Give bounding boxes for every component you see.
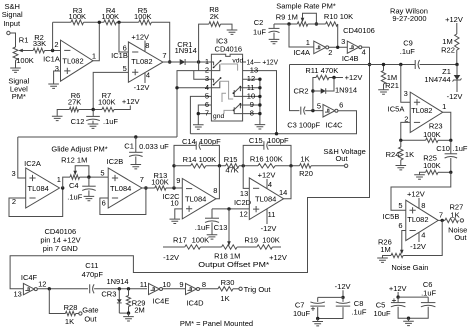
svg-text:R16: R16 xyxy=(250,154,264,163)
wire sample pulse routing xyxy=(10,47,369,289)
svg-text:5: 5 xyxy=(100,168,104,177)
capacitor C9 xyxy=(414,60,416,69)
IC3 CD4016 box xyxy=(211,54,242,121)
svg-text:2K: 2K xyxy=(210,12,219,21)
capacitor C1 xyxy=(135,137,137,152)
node pin7 xyxy=(197,112,200,115)
svg-text:CD4016: CD4016 xyxy=(215,44,243,53)
pin 3 wire xyxy=(194,71,212,80)
svg-text:7: 7 xyxy=(439,210,443,219)
svg-text:.1uF: .1uF xyxy=(103,117,118,126)
wire R25 right xyxy=(438,171,451,173)
IC2B feedback loop xyxy=(100,188,146,215)
svg-text:1: 1 xyxy=(92,51,96,60)
svg-text:IC2A: IC2A xyxy=(24,159,41,168)
pin 4 wire xyxy=(177,87,211,89)
ground (C13) xyxy=(211,222,213,234)
wire IC4D out xyxy=(200,288,218,290)
wire C2 to R9 xyxy=(274,23,297,25)
svg-text:4: 4 xyxy=(146,71,150,80)
node sample/osc xyxy=(368,63,371,66)
resistor R23 xyxy=(426,138,438,142)
ground (R25) xyxy=(420,172,426,174)
IC2A feedback loop xyxy=(9,188,63,217)
svg-text:-12V: -12V xyxy=(410,242,426,251)
node pin12/wiper xyxy=(227,207,230,210)
pin 12 wire xyxy=(243,78,260,80)
svg-text:IC4B: IC4B xyxy=(342,54,359,63)
svg-text:TL082: TL082 xyxy=(407,215,428,224)
capacitor C2 xyxy=(273,24,275,28)
capacitor C10 xyxy=(450,140,452,153)
svg-text:Signal: Signal xyxy=(2,10,23,19)
wire control bus top xyxy=(290,64,416,66)
svg-text:13: 13 xyxy=(14,290,22,299)
node Z1/R22 xyxy=(455,63,458,66)
node R23/C10 xyxy=(449,139,452,142)
svg-text:PM*: PM* xyxy=(12,92,26,101)
svg-text:100K: 100K xyxy=(151,177,169,186)
wire pin3 IC5A xyxy=(401,65,410,103)
pin 7 wire xyxy=(198,114,211,125)
op-amp IC5A xyxy=(410,92,443,132)
svg-text:C14: C14 xyxy=(182,137,196,146)
wire R13 to pin9 xyxy=(166,187,182,189)
svg-text:1K: 1K xyxy=(300,154,309,163)
wire IC4A input xyxy=(289,24,314,47)
resistor R11 xyxy=(316,75,329,79)
svg-text:.1uF: .1uF xyxy=(400,47,415,56)
svg-text:0.033 uF: 0.033 uF xyxy=(139,142,169,151)
svg-text:8: 8 xyxy=(250,109,254,118)
svg-text:Input: Input xyxy=(3,19,21,28)
wire C14 loop left xyxy=(174,145,196,188)
node IC5B output xyxy=(441,219,444,222)
svg-text:100K: 100K xyxy=(102,12,120,21)
R18 wiper xyxy=(228,209,230,242)
pin 8 stub xyxy=(144,41,146,52)
ground (IC3 bus) xyxy=(255,125,266,129)
right bus xyxy=(259,79,261,124)
svg-text:3: 3 xyxy=(341,37,345,46)
svg-text:14: 14 xyxy=(279,188,287,197)
node IC2B output xyxy=(144,186,147,189)
resistor R19 xyxy=(257,245,273,249)
svg-text:IC4F: IC4F xyxy=(21,273,38,282)
svg-text:4: 4 xyxy=(362,47,366,56)
node R25/C10 xyxy=(449,171,452,174)
svg-text:+12V: +12V xyxy=(389,284,407,293)
svg-text:3: 3 xyxy=(55,64,59,73)
svg-text:2: 2 xyxy=(54,40,58,49)
svg-text:11: 11 xyxy=(268,210,276,219)
svg-text:27K: 27K xyxy=(68,97,81,106)
resistor R17 xyxy=(185,245,201,249)
wire +12V stem xyxy=(397,292,399,297)
wire C5/C6 top bus xyxy=(398,296,428,298)
svg-text:-12V: -12V xyxy=(261,224,277,233)
ground (R8) xyxy=(227,30,238,34)
wire IC1B output xyxy=(163,61,180,63)
wire R28 riser xyxy=(49,289,65,314)
wire pin2 riser xyxy=(52,22,54,50)
capacitor C15 xyxy=(263,141,265,150)
svg-text:C13: C13 xyxy=(214,223,228,232)
svg-text:C10: C10 xyxy=(436,144,450,153)
node R23/R24 xyxy=(399,139,402,142)
ground (C7/C8) xyxy=(317,319,319,322)
ground (C12) xyxy=(92,121,94,124)
capacitor C7 xyxy=(317,297,319,302)
resistor R25 xyxy=(426,170,438,174)
inverter IC4B xyxy=(347,41,359,53)
svg-text:100K: 100K xyxy=(262,236,280,245)
wire rail to IC2A xyxy=(18,137,26,178)
svg-text:IC1A: IC1A xyxy=(43,55,60,64)
node R21 top xyxy=(382,63,385,66)
svg-text:TL082: TL082 xyxy=(411,106,432,115)
svg-text:1K: 1K xyxy=(220,294,229,303)
node R15/R16 xyxy=(242,164,245,167)
wire C9 right xyxy=(420,64,457,66)
node gate/R28 xyxy=(48,287,51,290)
svg-text:100pF: 100pF xyxy=(199,137,221,146)
svg-text:100K: 100K xyxy=(134,12,152,21)
R12 wiper loop xyxy=(73,171,77,176)
svg-text:100K: 100K xyxy=(192,236,210,245)
svg-text:-12V: -12V xyxy=(447,92,463,101)
ground (R24) xyxy=(396,166,407,170)
svg-text:IC5B: IC5B xyxy=(383,212,400,221)
svg-text:IC4A: IC4A xyxy=(293,48,310,57)
terminal Trig Out xyxy=(239,287,242,290)
ground (C4) xyxy=(88,190,90,196)
node C8 top xyxy=(341,296,344,299)
svg-text:4: 4 xyxy=(421,231,425,240)
svg-text:47K: 47K xyxy=(225,165,238,174)
wire R23 right xyxy=(438,139,451,141)
svg-text:11: 11 xyxy=(140,280,148,289)
op-amp IC1B xyxy=(128,42,163,82)
svg-text:IC5A: IC5A xyxy=(388,105,405,114)
R9 wiper loop xyxy=(301,18,305,23)
op-amp IC1A xyxy=(61,40,94,81)
svg-text:CD40106: CD40106 xyxy=(343,26,375,35)
wire C7/C8 top bus xyxy=(318,296,343,298)
ground (IC3 pin7) xyxy=(193,125,204,129)
svg-text:C2: C2 xyxy=(254,18,264,27)
svg-text:R11 470K: R11 470K xyxy=(305,66,338,75)
svg-text:.1uF: .1uF xyxy=(67,192,82,201)
svg-text:Out: Out xyxy=(454,233,467,242)
svg-text:10uF: 10uF xyxy=(293,309,311,318)
op-amp IC2B xyxy=(108,168,142,208)
wire R26 to output xyxy=(403,220,442,255)
svg-text:5: 5 xyxy=(123,64,127,73)
svg-text:1uF: 1uF xyxy=(253,28,266,37)
wire IC5A out riser xyxy=(443,112,451,140)
wire IC4C output loop xyxy=(190,111,356,134)
wire sample bus rail xyxy=(18,136,177,138)
svg-text:33K: 33K xyxy=(33,39,46,48)
wire R19 to +12V xyxy=(272,246,281,248)
wire R18-R19 xyxy=(237,246,257,248)
pin 1-2 link xyxy=(198,62,200,71)
wire pin6 wiper xyxy=(402,231,406,252)
ground (R26) xyxy=(383,256,392,258)
svg-text:C4: C4 xyxy=(69,181,79,190)
svg-text:.1uF: .1uF xyxy=(351,307,366,316)
switch 2 (pins 3/4) xyxy=(211,79,213,82)
terminal Gate Out xyxy=(79,312,82,315)
wire R17-R18 xyxy=(200,246,221,248)
svg-text:2M: 2M xyxy=(134,305,144,314)
capacitor C6 xyxy=(427,297,429,302)
svg-text:+12V: +12V xyxy=(445,15,463,24)
svg-text:100K: 100K xyxy=(265,154,283,163)
op-amp IC2A xyxy=(26,168,60,208)
wire C14 loop right xyxy=(201,145,220,165)
capacitor C11 xyxy=(89,284,91,293)
resistor R22 xyxy=(456,23,458,34)
wire R2 to IC1A xyxy=(45,50,61,52)
diode CR3 xyxy=(118,289,120,299)
svg-text:3: 3 xyxy=(404,89,408,98)
resistor R4 xyxy=(104,20,117,25)
wire IC5B out xyxy=(438,219,445,221)
svg-text:IC1B: IC1B xyxy=(111,51,128,60)
switch 4 (pins 9/8) xyxy=(240,105,242,108)
inverter IC4A xyxy=(314,41,326,54)
svg-text:1N914: 1N914 xyxy=(175,46,197,55)
resistor R30 xyxy=(218,287,233,291)
wire pin5 IC1B xyxy=(93,72,128,109)
node CR2 xyxy=(311,89,314,92)
node R16/R20 xyxy=(289,164,292,167)
wire C3 left drop xyxy=(290,65,300,111)
svg-text:-12V: -12V xyxy=(335,282,351,291)
svg-text:C1: C1 xyxy=(124,142,134,151)
ground (IC1A pin3) xyxy=(48,84,59,88)
capacitor C3 xyxy=(300,107,302,115)
resistor R6 xyxy=(69,107,78,111)
node R11/diode xyxy=(332,76,335,79)
wire pin10 ground xyxy=(175,209,183,219)
resistor R16 xyxy=(258,164,275,168)
svg-text:100K: 100K xyxy=(423,161,441,170)
diode CR1 xyxy=(180,59,185,65)
svg-text:vdd: vdd xyxy=(232,57,243,64)
node R12/C4 xyxy=(87,175,90,178)
wire IC4B output xyxy=(362,46,370,48)
node pin4/pin2 riser xyxy=(175,86,178,89)
svg-text:C3: C3 xyxy=(287,120,297,129)
wire pin6 riser xyxy=(119,22,128,52)
svg-text:9: 9 xyxy=(179,280,183,289)
wire IC2B out xyxy=(142,187,155,189)
svg-text:8: 8 xyxy=(421,201,425,210)
pin 8 wire xyxy=(243,113,260,115)
wire R28 to gate xyxy=(76,313,79,315)
svg-text:Trig Out: Trig Out xyxy=(244,285,272,294)
wire R4-R5 xyxy=(116,21,138,23)
resistor R27 xyxy=(445,218,459,222)
svg-text:TL082: TL082 xyxy=(62,57,83,66)
wire C15 loop right xyxy=(268,145,291,165)
svg-text:R9 1M: R9 1M xyxy=(276,13,298,22)
wire IC4E-IC4D xyxy=(163,288,186,290)
wire pin13 xyxy=(243,166,249,189)
potentiometer R12 xyxy=(70,175,80,179)
resistor R13 xyxy=(155,186,166,190)
node IC4A input xyxy=(287,22,290,25)
resistor R10 xyxy=(326,22,338,26)
svg-text:IC2B: IC2B xyxy=(107,157,124,166)
ground (C1) xyxy=(135,157,137,165)
svg-text:+: + xyxy=(392,295,397,305)
svg-text:4: 4 xyxy=(268,180,272,189)
wiper arrow R1 xyxy=(18,49,23,53)
wire CR3/R29 bottom xyxy=(119,312,128,314)
svg-text:7: 7 xyxy=(162,51,166,60)
svg-text:1: 1 xyxy=(57,175,61,184)
capacitor C8 xyxy=(342,297,344,302)
svg-text:-12V: -12V xyxy=(163,253,179,262)
resistor R5 xyxy=(139,20,152,25)
svg-text:TL084: TL084 xyxy=(185,195,206,204)
svg-text:C15: C15 xyxy=(249,136,263,145)
svg-text:1K: 1K xyxy=(65,317,74,326)
svg-text:C12: C12 xyxy=(71,117,85,126)
wire noise to IC5B xyxy=(391,172,451,210)
svg-text:1N914: 1N914 xyxy=(106,277,128,286)
pin 4 stub (IC2D) xyxy=(266,179,268,189)
node pin9 xyxy=(172,186,175,189)
node R4/R5/pin6 xyxy=(117,21,120,24)
pin 4 stub (IC5B) xyxy=(418,232,420,242)
svg-text:R17: R17 xyxy=(173,236,187,245)
pin 14 wire xyxy=(243,61,246,63)
wire C10 bottom xyxy=(450,158,452,172)
svg-text:IC4C: IC4C xyxy=(325,120,343,129)
node R14 left xyxy=(172,164,175,167)
wire R20 to out xyxy=(311,165,344,167)
svg-text:8: 8 xyxy=(202,280,206,289)
node R10/gate wire xyxy=(336,46,339,49)
diode 1N914 (CR2 cell) xyxy=(313,90,321,92)
zener Z1 xyxy=(456,65,458,76)
wire C5/C6 bottom bus xyxy=(398,307,428,318)
svg-text:R10 10K: R10 10K xyxy=(324,12,353,21)
resistor R14 xyxy=(191,164,206,168)
wire IC4F out xyxy=(37,288,88,290)
wire C15 loop left xyxy=(243,145,264,165)
node pin1 bus xyxy=(197,60,200,63)
svg-text:gnd: gnd xyxy=(213,113,225,120)
svg-text:470pF: 470pF xyxy=(82,270,104,279)
potentiometer R18 xyxy=(222,245,238,249)
svg-text:CR2: CR2 xyxy=(293,87,308,96)
svg-text:7: 7 xyxy=(140,175,144,184)
pin 6 wire xyxy=(198,105,211,114)
svg-text:2: 2 xyxy=(328,48,332,57)
svg-text:10: 10 xyxy=(170,199,178,208)
ground (CR3/R29) xyxy=(128,313,130,316)
wire R23 left xyxy=(401,139,426,141)
node C5/C6 ground xyxy=(407,317,410,320)
wire C7/C8 bottom bus xyxy=(318,307,343,318)
svg-text:R20: R20 xyxy=(299,169,313,178)
wire CR1 to pin1 xyxy=(185,61,212,63)
wire IC2D out riser xyxy=(284,166,291,199)
svg-text:9: 9 xyxy=(176,176,180,185)
switch 3 (pins 11/10) xyxy=(240,88,242,91)
svg-text:10: 10 xyxy=(162,280,170,289)
wire R8 to ground xyxy=(221,24,233,30)
resistor R15 xyxy=(226,164,239,168)
inverter IC4F xyxy=(23,283,34,294)
svg-text:R24: R24 xyxy=(386,150,400,159)
svg-text:TL084: TL084 xyxy=(28,184,49,193)
potentiometer R9 xyxy=(297,22,308,26)
node pin2 IC1A xyxy=(51,49,54,52)
resistor R8 xyxy=(209,22,221,27)
pin 10 wire xyxy=(243,95,260,97)
svg-text:7: 7 xyxy=(205,109,209,118)
potentiometer R26 xyxy=(391,253,403,257)
pin 8 stub (IC5B) xyxy=(418,198,420,208)
svg-text:Glide Adjust PM*: Glide Adjust PM* xyxy=(51,144,107,153)
switch 1 (pins 1/2) xyxy=(211,62,213,65)
svg-text:100K: 100K xyxy=(423,130,441,139)
op-amp IC2C xyxy=(182,179,216,219)
wire C11 to CR3 xyxy=(94,288,147,290)
svg-text:R30: R30 xyxy=(221,278,235,287)
ground (IC2C pin10) xyxy=(170,219,181,223)
wire R30 to trig xyxy=(233,288,239,290)
potentiometer R1 xyxy=(13,47,18,60)
node R29 xyxy=(127,287,130,290)
svg-text:R12 1M: R12 1M xyxy=(61,156,87,165)
svg-text:12: 12 xyxy=(38,279,46,288)
op-amp IC5B xyxy=(406,200,438,240)
svg-text:100K: 100K xyxy=(199,155,217,164)
ground (C5/C6) xyxy=(408,318,410,321)
node C5 top xyxy=(396,295,399,298)
wire R6-R7 xyxy=(79,109,102,111)
capacitor C4 xyxy=(88,177,90,186)
svg-text:100pF: 100pF xyxy=(299,120,321,129)
svg-text:Noise Gain: Noise Gain xyxy=(391,263,428,272)
svg-text:Output Offset PM*: Output Offset PM* xyxy=(198,260,269,269)
svg-text:1M: 1M xyxy=(380,245,390,254)
svg-text:.1uF: .1uF xyxy=(421,289,436,298)
node R5/output xyxy=(168,60,171,63)
svg-text:+12V: +12V xyxy=(258,170,276,179)
resistor R2 xyxy=(33,48,44,53)
svg-text:100K: 100K xyxy=(69,12,87,21)
svg-text:CR3: CR3 xyxy=(101,290,116,299)
svg-text:IC4D: IC4D xyxy=(186,299,204,308)
resistor R24 xyxy=(400,140,402,147)
svg-text:1K: 1K xyxy=(405,150,414,159)
svg-text:6: 6 xyxy=(339,101,343,110)
ground (R1) xyxy=(15,60,17,68)
svg-text:Out: Out xyxy=(84,315,97,324)
pin 5 wire xyxy=(190,96,211,133)
svg-text:8: 8 xyxy=(145,41,149,50)
capacitor C12 xyxy=(92,110,94,117)
